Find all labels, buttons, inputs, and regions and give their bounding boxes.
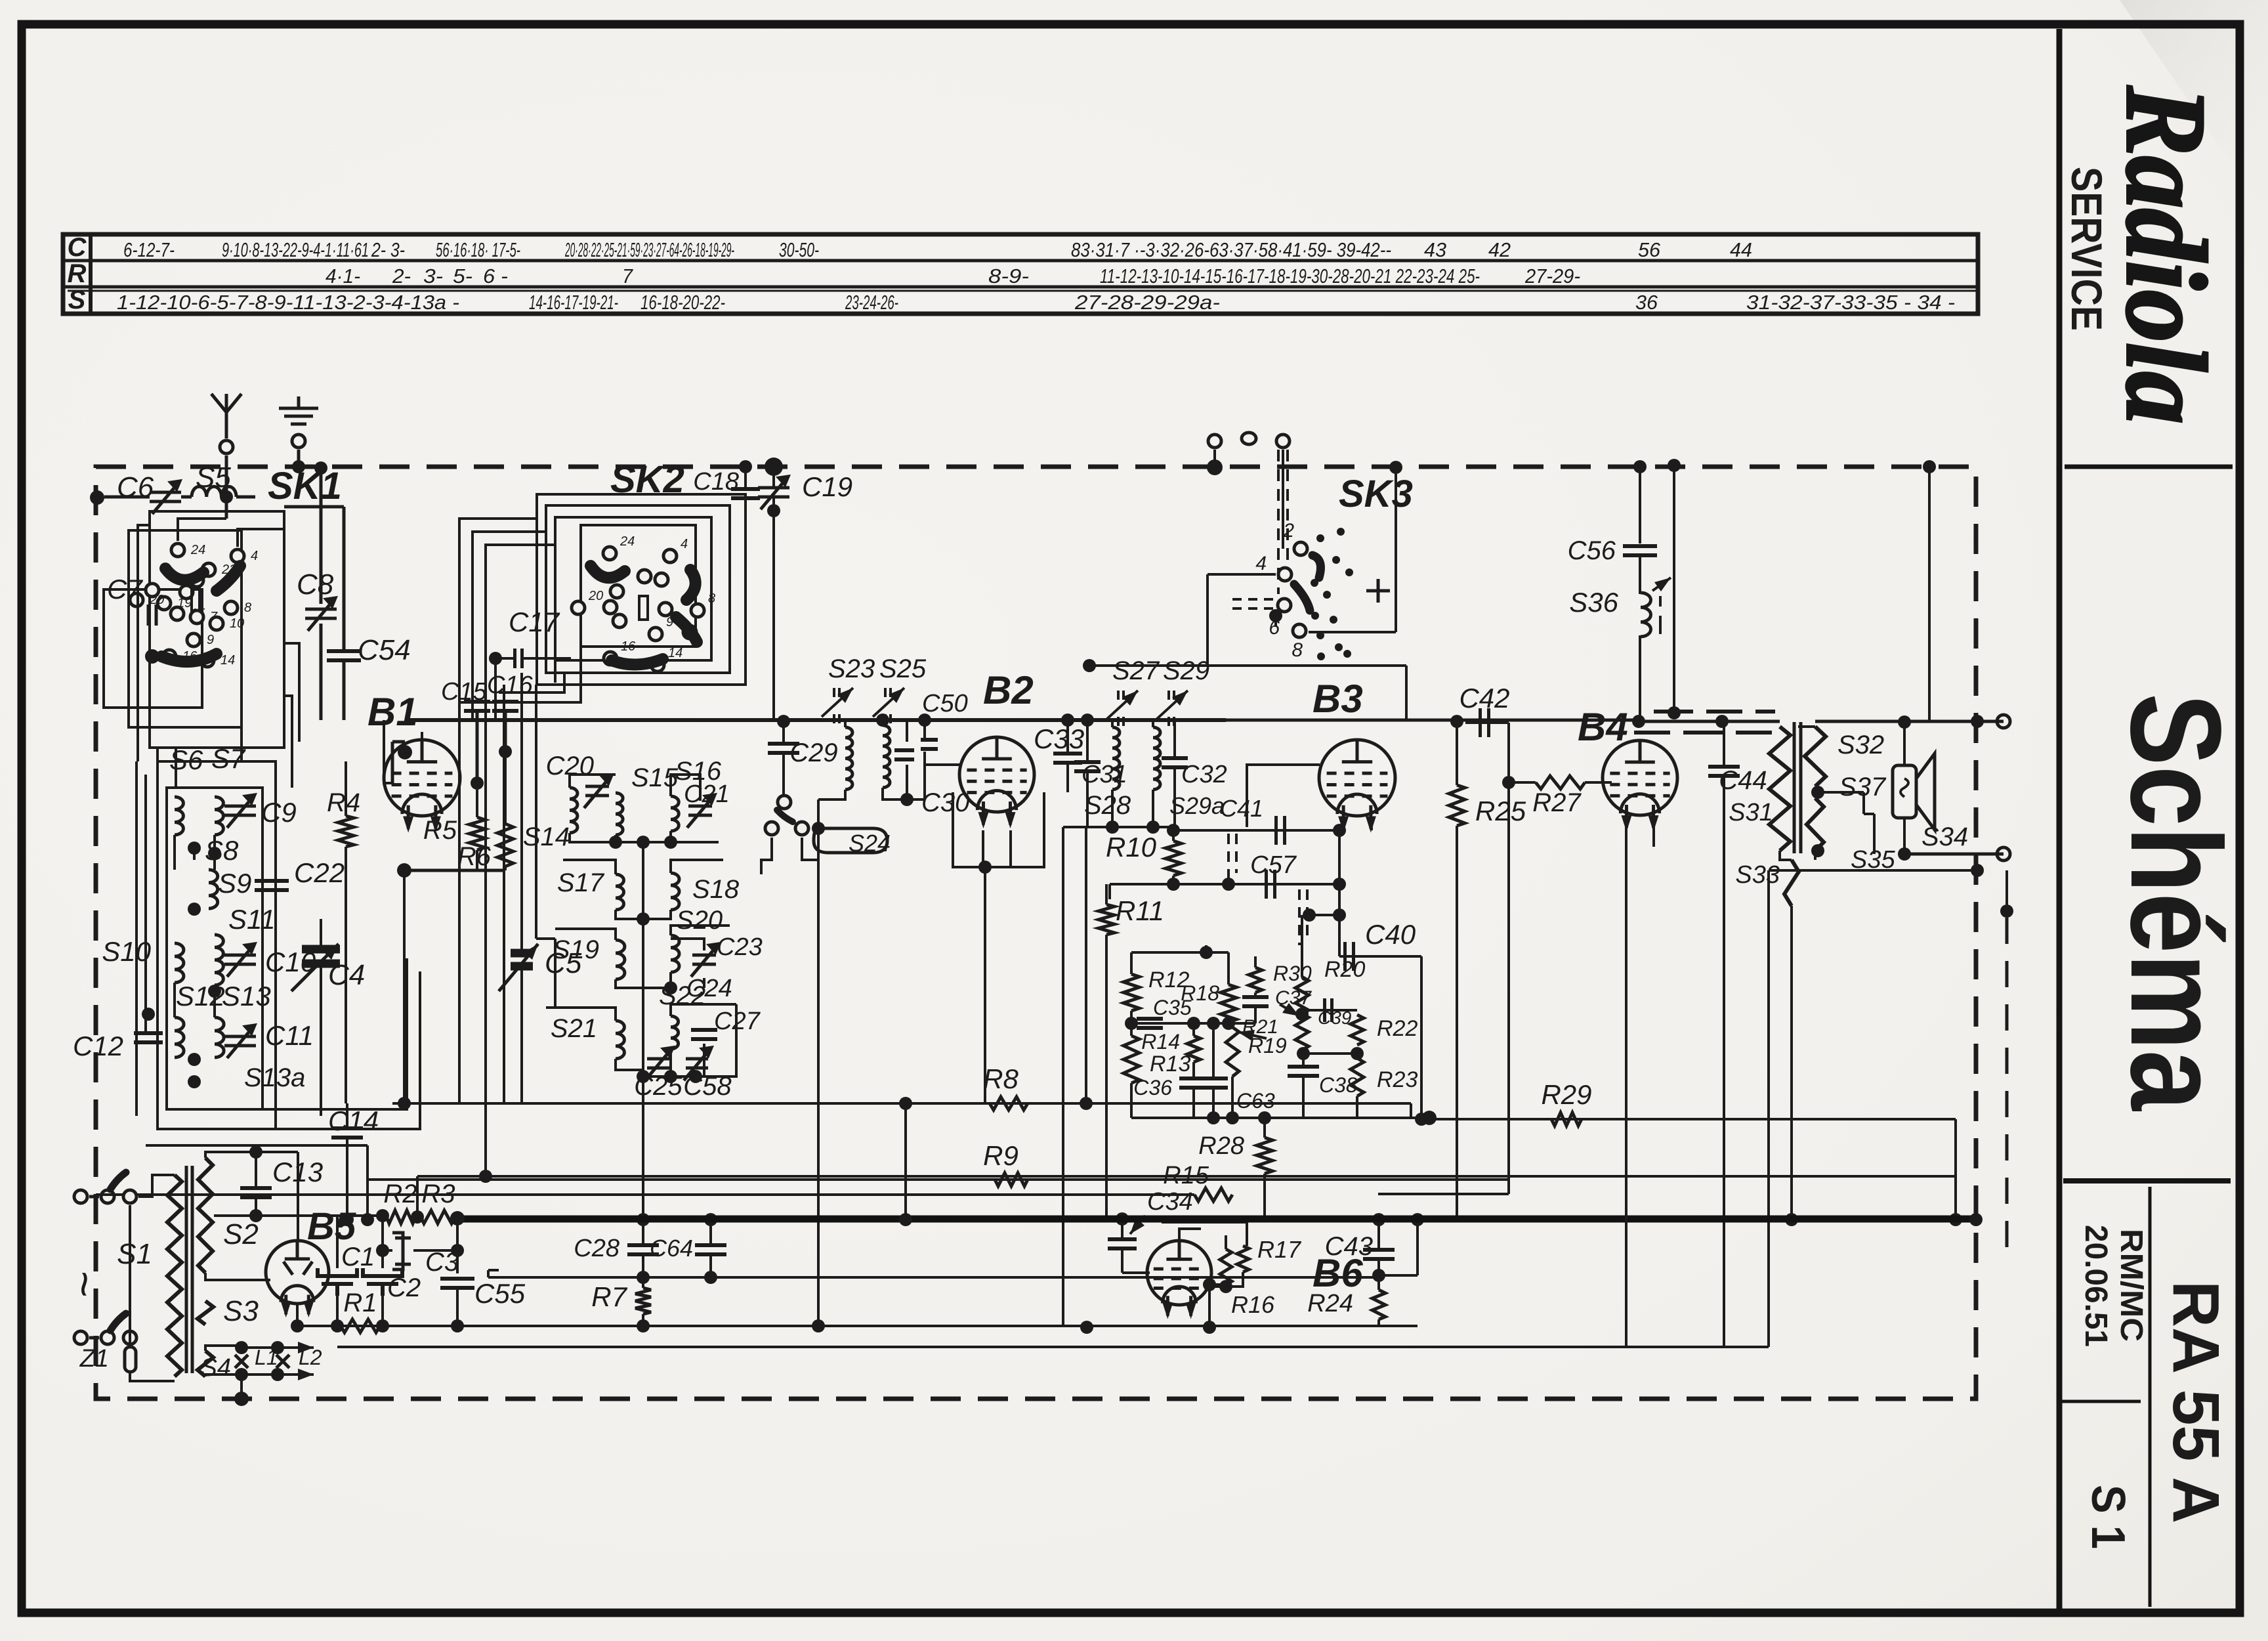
wire AF ground rail — [337, 1346, 1769, 1348]
capacitor C63 — [1199, 1078, 1228, 1088]
wire stub2 — [1108, 889, 1111, 899]
svg-text:R14: R14 — [1141, 1030, 1180, 1054]
junction C58 left — [664, 1070, 677, 1083]
junction spare b — [479, 1170, 492, 1183]
junction S33 on heavy bus — [1785, 1213, 1798, 1226]
junction R18 bottom — [1222, 1017, 1235, 1030]
SK1 index mark — [192, 588, 199, 610]
wire cathode return rail — [298, 1325, 1417, 1327]
wire S37 drop — [1862, 792, 1865, 814]
R21 wiper arrow — [1280, 1003, 1299, 1016]
SK3 plus mark — [1366, 579, 1390, 603]
wire C34 top lead — [1121, 1220, 1123, 1239]
IFT1 wiring — [818, 720, 925, 827]
mains contact lower b — [123, 1331, 136, 1344]
svg-text:SERVICE: SERVICE — [2063, 167, 2111, 331]
wire R13 bottom — [1130, 1083, 1133, 1118]
wire C43 top lead — [1377, 1220, 1380, 1250]
svg-text:C2: C2 — [387, 1273, 421, 1302]
svg-text:20: 20 — [149, 593, 164, 607]
speaker S34 — [1893, 754, 1935, 830]
capacitor C5 variable — [511, 953, 533, 966]
wire S4 top out — [205, 1346, 241, 1351]
svg-text:C6: C6 — [117, 471, 154, 503]
svg-text:S27: S27 — [1112, 656, 1160, 685]
wire B3 grid link — [1247, 765, 1320, 827]
junction C13 top — [249, 1145, 262, 1159]
switch SK2 contact 14 — [651, 658, 664, 671]
tube B4 — [1603, 740, 1677, 832]
svg-text:16-18-20-22-: 16-18-20-22- — [640, 291, 725, 314]
svg-text:C63: C63 — [1236, 1089, 1275, 1113]
svg-text:1-12-10-6-5-7-8-9-11-13-2-3-4-: 1-12-10-6-5-7-8-9-11-13-2-3-4-13a - — [117, 291, 459, 314]
S36 adjust arrow — [1652, 578, 1671, 591]
wire switch to primary top — [138, 1175, 175, 1197]
wire C57 span — [1110, 883, 1339, 885]
junction C3 right — [451, 1244, 464, 1257]
wire C3 left — [383, 1249, 392, 1252]
wire return column up — [1767, 870, 1770, 1347]
wire S5 to antenna node — [236, 496, 255, 499]
switch SK1 contact 16 — [163, 650, 176, 663]
wire drop to heavy bus — [366, 1145, 369, 1220]
junction R1 right — [376, 1319, 389, 1332]
junction SK3 chassis — [1389, 461, 1402, 474]
junction antenna node — [220, 490, 233, 503]
S29 core adjust — [1169, 691, 1174, 726]
switch SK3 contact 8 — [1293, 624, 1306, 637]
wire C34 bottom lead — [1121, 1248, 1123, 1273]
capacitor C41 — [1276, 816, 1285, 845]
SK1 rotor segment a — [165, 568, 203, 580]
wire screen rail — [488, 1276, 1379, 1279]
wire cathode rail drop — [403, 870, 406, 1103]
junction C41 left — [1167, 824, 1180, 837]
wire C4 bottom — [320, 968, 322, 1116]
wire second column — [1673, 465, 1675, 713]
wire antenna lead — [225, 456, 228, 497]
junction S16 bottom — [664, 836, 677, 849]
wire rail drop right — [1954, 1119, 1957, 1220]
wire R10 top — [1172, 830, 1175, 841]
svg-text:R1: R1 — [343, 1289, 377, 1317]
junction column — [1333, 908, 1346, 922]
wire speaker bottom lead — [1903, 818, 1906, 854]
wire AF to B3 grid region — [1405, 666, 1408, 720]
junction on heavy bus — [899, 1213, 912, 1226]
wire secondary top to output terminal — [1815, 720, 2004, 723]
grid leads dashed 2 — [1299, 889, 1307, 945]
capacitor C11 trimmer — [224, 1025, 256, 1058]
mains terminal N — [74, 1331, 87, 1344]
switch SK1 outline 3 — [104, 589, 202, 708]
switch SK2 contact 16 — [604, 652, 617, 665]
junction R10/C57 — [1167, 878, 1180, 891]
wire S33 tail down — [1790, 906, 1793, 1220]
wire B1 plate link — [384, 720, 422, 783]
svg-text:S28: S28 — [1084, 791, 1131, 820]
wire R27 column down — [1507, 782, 1510, 1194]
inductor S24 loop — [814, 828, 887, 853]
tube B6 — [1147, 1241, 1211, 1319]
IFT2 wiring — [1063, 720, 1175, 827]
svg-text:S18: S18 — [692, 875, 740, 904]
svg-text:9·10·8-13-22-9-4-1·11·61: 9·10·8-13-22-9-4-1·11·61 — [222, 238, 369, 261]
mains switch lever lower — [110, 1313, 126, 1331]
wire R30 top — [1254, 956, 1257, 968]
resistor R13 — [1123, 1036, 1139, 1083]
pickup terminal 1 — [1208, 435, 1221, 448]
output terminal lower — [1997, 847, 2010, 861]
svg-text:56·16·18· 17-5-: 56·16·18· 17-5- — [436, 238, 520, 261]
pickup terminal 2 — [1242, 433, 1256, 444]
wire C50 bottom — [923, 752, 926, 799]
switch contact pickup b — [765, 822, 778, 835]
inductor S23 winding — [845, 727, 852, 790]
SK2 rotor segment a — [591, 566, 625, 578]
mains switch lower — [89, 1331, 114, 1344]
antenna — [211, 394, 241, 438]
wire jog — [536, 937, 555, 940]
wire C17 left — [495, 657, 514, 660]
B2 cathode box — [953, 792, 1044, 867]
wire C33 top — [1066, 720, 1069, 754]
svg-text:S25: S25 — [879, 654, 927, 683]
wire SK2 inner down — [535, 685, 537, 939]
inductor S6 — [175, 797, 183, 835]
wire AVC rail — [392, 1102, 1411, 1105]
switch SK1 contact 15 — [171, 607, 184, 620]
svg-text:Schéma: Schéma — [2104, 693, 2248, 1112]
wire to output terminal lower — [1904, 853, 2004, 856]
wire SK2 outer down — [503, 685, 505, 1103]
table row line R/S lower — [68, 290, 1978, 292]
svg-text:S23: S23 — [828, 654, 875, 683]
svg-text:S4: S4 — [201, 1354, 231, 1382]
ground symbol — [279, 396, 318, 424]
titleblock left column divider — [2061, 1400, 2141, 1403]
svg-text:4: 4 — [251, 549, 258, 563]
svg-text:14-16-17-19-21-: 14-16-17-19-21- — [529, 291, 618, 314]
inductor S15 — [616, 793, 623, 835]
wire R10 bottom — [1172, 876, 1175, 884]
wire C34 to B6 grid — [1122, 1271, 1150, 1274]
wire entry to C6 — [104, 496, 150, 499]
svg-text:S6: S6 — [169, 744, 203, 775]
wire coil bank to C14 column — [146, 1144, 367, 1147]
wire C38 bottom — [1302, 1076, 1305, 1118]
svg-text:RA 55 A: RA 55 A — [2159, 1281, 2233, 1524]
inductor S36 — [1641, 593, 1650, 637]
wire C1 down — [336, 1296, 339, 1326]
svg-text:2: 2 — [1282, 520, 1294, 542]
lamp rail arrow upper — [289, 1342, 314, 1353]
wire R19 bottom — [1231, 1076, 1234, 1118]
svg-text:B4: B4 — [1578, 705, 1628, 749]
svg-text:S32: S32 — [1837, 731, 1884, 759]
svg-text:14: 14 — [668, 646, 682, 660]
SK3 position dots — [1311, 528, 1353, 660]
capacitor C18 — [731, 489, 760, 498]
wire C40 down to R29 rail — [1420, 956, 1423, 1119]
junction S17/S18 — [637, 912, 650, 926]
wire B3 cathode down — [1343, 826, 1372, 830]
junction C38 top — [1297, 1047, 1310, 1060]
svg-text:R10: R10 — [1106, 832, 1157, 863]
svg-text:S21: S21 — [551, 1014, 597, 1043]
capacitor C64 — [695, 1245, 726, 1254]
junction B2 cathode — [978, 861, 992, 874]
wire IFT2 col b — [1085, 827, 1087, 1103]
wire R3 to C3 — [456, 1218, 459, 1250]
svg-text:R25: R25 — [1475, 796, 1526, 826]
wire C28 top — [642, 1220, 644, 1245]
winding S33 tail — [1784, 860, 1799, 906]
junction AVC left — [398, 1097, 411, 1110]
svg-text:36: 36 — [1635, 291, 1658, 314]
junction rail on bus — [1949, 1213, 1962, 1226]
capacitor C54 — [327, 651, 361, 660]
wire SK3 contact4 in — [1207, 573, 1276, 576]
wire C44 bottom long — [1723, 776, 1725, 1347]
svg-text:S33: S33 — [1735, 861, 1780, 889]
wire pickup 3 lead — [1282, 450, 1284, 549]
wire tap up — [1416, 1220, 1419, 1275]
junction bus left — [1080, 1321, 1093, 1334]
junction R12 top — [1200, 946, 1213, 959]
wire B2 heater drop — [983, 830, 1011, 867]
wire C57 stub — [1108, 884, 1111, 889]
oscillator coil wiring — [546, 775, 736, 1076]
junction heavy bus a — [361, 1213, 374, 1226]
resistor R11 — [1099, 905, 1114, 935]
capacitor C58 trimmer — [684, 1048, 711, 1080]
wire AF return rail — [367, 1178, 1509, 1181]
wire SK3 contact8 out — [1309, 631, 1396, 633]
wire C28 bottom — [642, 1254, 644, 1277]
junction S20 bottom — [664, 981, 677, 994]
wire R6 bottom — [504, 866, 507, 870]
R19 wiper arrow — [1238, 1030, 1267, 1041]
wire C4 top — [320, 919, 322, 945]
wire SK3 dashed link — [1232, 599, 1273, 608]
svg-text:C33: C33 — [1034, 723, 1084, 754]
mains contact upper b — [123, 1190, 136, 1203]
svg-text:Radiola: Radiola — [2103, 85, 2230, 424]
svg-text:Z1: Z1 — [79, 1345, 109, 1373]
capacitor C13 — [240, 1188, 272, 1197]
switch SK1 contact 4 — [231, 549, 244, 563]
junction cathode/R8 rail — [899, 1097, 912, 1110]
wire bottom rail left segment — [96, 1193, 1194, 1196]
svg-text:C42: C42 — [1459, 683, 1509, 714]
switch SK1 contact 19 — [157, 597, 171, 610]
svg-text:56: 56 — [1638, 238, 1661, 261]
wire C14 bottom — [346, 1138, 348, 1220]
wire R23 bottom — [1356, 1096, 1358, 1118]
wire C3 right — [413, 1249, 457, 1252]
switch SK1 contact 24 — [171, 543, 184, 557]
wire rail to heavy bus — [904, 1103, 907, 1220]
junction C19 bottom — [767, 504, 780, 517]
svg-text:B2: B2 — [983, 668, 1034, 712]
B5 diode plates — [283, 1262, 312, 1275]
svg-text:C57: C57 — [1250, 851, 1297, 879]
wire C31 top — [1086, 720, 1089, 761]
chassis dashed outline box — [96, 467, 1976, 1399]
mains switch upper — [89, 1190, 114, 1203]
wire C16 down — [504, 711, 507, 752]
junction C3 left — [376, 1244, 389, 1257]
switch SK1 outline — [150, 511, 284, 748]
svg-text:C36: C36 — [1133, 1076, 1172, 1099]
wire to R5 — [476, 790, 478, 817]
wire R2/R3 tap up — [416, 1176, 419, 1217]
wire speaker top lead — [1903, 722, 1906, 765]
wire S24 column down — [817, 828, 820, 1326]
capacitor C31 — [1074, 762, 1101, 771]
capacitor C3 — [392, 1233, 411, 1269]
SK2 rotor segment b — [686, 570, 696, 600]
resistor R27 — [1536, 776, 1585, 789]
junction C33 bus — [1061, 714, 1074, 727]
output terminal upper — [1997, 715, 2010, 728]
pickup terminal 3 — [1276, 435, 1290, 448]
junction S9 bottom — [188, 903, 201, 916]
SK2 nest feed wires — [459, 519, 555, 720]
junction coil bank — [188, 842, 201, 855]
wire pickup 3 down dashed — [1278, 450, 1288, 594]
wire C44 top lead — [1723, 721, 1725, 767]
svg-text:C16: C16 — [487, 671, 534, 699]
inductor S20 — [671, 935, 679, 972]
wire B5 anode top — [297, 1152, 299, 1241]
switch SK1 contact 10 — [210, 617, 223, 630]
svg-text:R13: R13 — [1150, 1052, 1190, 1076]
component cross-reference table frame — [63, 234, 1978, 314]
wire R28 top — [1263, 1118, 1266, 1138]
sidebar divider above titleblock — [2063, 1178, 2231, 1183]
wire C3 to C55 — [456, 1250, 459, 1273]
junction SK1 wiper — [145, 649, 159, 664]
junction C29 top — [777, 715, 790, 728]
wire C13 bottom lead — [255, 1197, 257, 1216]
svg-text:9: 9 — [207, 633, 214, 647]
junction C42 left — [1450, 715, 1463, 728]
junction C18 chassis — [739, 460, 752, 473]
svg-text:S11: S11 — [228, 904, 276, 935]
titleblock inner vertical — [2149, 1187, 2152, 1607]
junction S24 column bottom — [812, 1319, 825, 1332]
wire B1 grid top — [392, 740, 405, 744]
junction rail b — [1226, 1111, 1239, 1124]
resistor R19 — [1226, 1027, 1239, 1076]
transformer secondary S35 — [1807, 798, 1824, 851]
svg-text:S14: S14 — [523, 822, 570, 851]
switch SK1 contact 20 — [130, 593, 143, 607]
junction lamp b2 — [271, 1368, 284, 1381]
junction R27 left — [1502, 776, 1515, 789]
coil bank wiring loop 2 — [175, 983, 215, 1017]
wire outside dashed stub — [2005, 918, 2009, 1260]
wire R24 bottom — [1377, 1319, 1380, 1327]
inductor S18 — [671, 873, 679, 910]
svg-text:10: 10 — [230, 616, 244, 631]
junction C64 bottom — [704, 1271, 717, 1284]
sidebar divider under logo — [2065, 465, 2233, 469]
coil bank frame 2 — [167, 788, 262, 1109]
capacitor C2 — [363, 1268, 402, 1296]
svg-text:7: 7 — [622, 265, 634, 288]
svg-text:23-24-26-: 23-24-26- — [845, 291, 898, 314]
junction cathode rail — [397, 863, 411, 878]
svg-text:RM/MC: RM/MC — [2114, 1229, 2149, 1342]
fuse Z1 — [125, 1347, 136, 1372]
svg-text:C43: C43 — [1325, 1232, 1373, 1261]
svg-text:R23: R23 — [1377, 1067, 1417, 1092]
wire C38 top lead — [1302, 1050, 1305, 1067]
junction C19 chassis — [765, 458, 783, 476]
inductor S19 — [616, 940, 625, 979]
junction C58 — [689, 1070, 702, 1083]
inductor S21 — [616, 1021, 624, 1059]
wire C29 top lead — [782, 721, 785, 744]
wire to R7 — [642, 1277, 644, 1288]
wire right feed from chassis — [1928, 467, 1931, 721]
junction B6 cathode bus — [1203, 1321, 1216, 1334]
wire B5 cathode down — [296, 1304, 299, 1326]
wire outside stub — [2005, 870, 2008, 911]
inductor S22 — [671, 1016, 679, 1049]
junction heavy bus right end — [1969, 1213, 1983, 1226]
svg-text:SK1: SK1 — [268, 465, 342, 507]
svg-text:8: 8 — [1291, 639, 1303, 661]
junction C14 heavy bus — [341, 1213, 354, 1226]
wire ground lead — [297, 450, 301, 467]
mains switch lever upper — [110, 1172, 126, 1189]
wire main feedback column — [1338, 830, 1341, 956]
wire R11 bottom — [1105, 935, 1108, 1220]
resistor R30 — [1249, 968, 1262, 992]
junction S13a — [188, 1075, 201, 1088]
inductor S14 — [570, 788, 577, 833]
wire R12 upper lead — [1130, 952, 1133, 974]
resistor R14 — [1187, 1036, 1200, 1062]
S25 adjust arrow — [873, 688, 904, 717]
mains transformer core — [186, 1166, 192, 1373]
junction rail a — [1207, 1111, 1220, 1124]
wire C63 top — [1212, 1023, 1215, 1078]
wire C29 bottom lead — [782, 753, 785, 799]
switch SK2 contact 9 — [649, 628, 662, 641]
inductor S28 winding — [1112, 727, 1120, 790]
wire vertical spare b — [484, 720, 487, 1176]
wire coil bank column a — [135, 761, 138, 1116]
svg-text:S2: S2 — [223, 1218, 259, 1250]
resistor R1 — [341, 1319, 380, 1332]
switch SK2 outline nest 2 — [546, 505, 730, 673]
wire chassis to C8 — [320, 468, 323, 604]
wire to R27 — [1509, 781, 1536, 784]
svg-text:R28: R28 — [1198, 1132, 1244, 1160]
wire R29 rail — [1421, 1118, 1956, 1120]
svg-text:R24: R24 — [1307, 1290, 1353, 1317]
svg-text:8: 8 — [244, 601, 251, 615]
junction AF left — [1083, 659, 1096, 672]
junction C13 bottom — [249, 1209, 262, 1222]
wire C2 top — [381, 1216, 384, 1268]
wire lamp to chassis — [240, 1375, 243, 1399]
